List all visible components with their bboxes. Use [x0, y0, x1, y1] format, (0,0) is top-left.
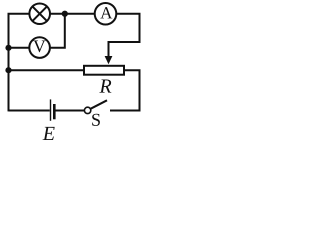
rheostat R [84, 66, 124, 75]
wiper arrowhead [105, 56, 113, 64]
wire left rail + top-left corner to lamp [9, 14, 30, 111]
label V (voltmeter) [33, 41, 45, 53]
wire lamp to ammeter [50, 13, 95, 15]
node junction dot left lower (rheostat tap) [5, 67, 11, 73]
voltmeter U2 [29, 37, 50, 58]
switch S pivot [84, 107, 90, 113]
battery E long thin plate [50, 99, 52, 120]
switch S blade [91, 100, 108, 109]
wire ammeter to top-right corner, down and left to wiper [109, 14, 140, 57]
voltmeter U2 wires [9, 47, 30, 49]
wire bottom-left corner fill [8, 110, 10, 112]
label A (ammeter) [100, 7, 112, 18]
battery E short thick plate [53, 104, 56, 119]
wire switch to battery [55, 110, 84, 112]
node junction dot left upper (voltmeter tap) [5, 45, 11, 51]
ammeter U1 [95, 3, 117, 25]
wire left rail to rheostat [9, 69, 85, 71]
label S (switch) [92, 114, 100, 126]
wire battery to bottom-left corner [9, 110, 50, 112]
wire rheostat to bottom-right corner [110, 70, 140, 110]
label R value [99, 80, 111, 93]
node junction dot top [62, 11, 68, 17]
lamp X1 [29, 3, 50, 24]
label E (battery emf) [43, 127, 55, 140]
